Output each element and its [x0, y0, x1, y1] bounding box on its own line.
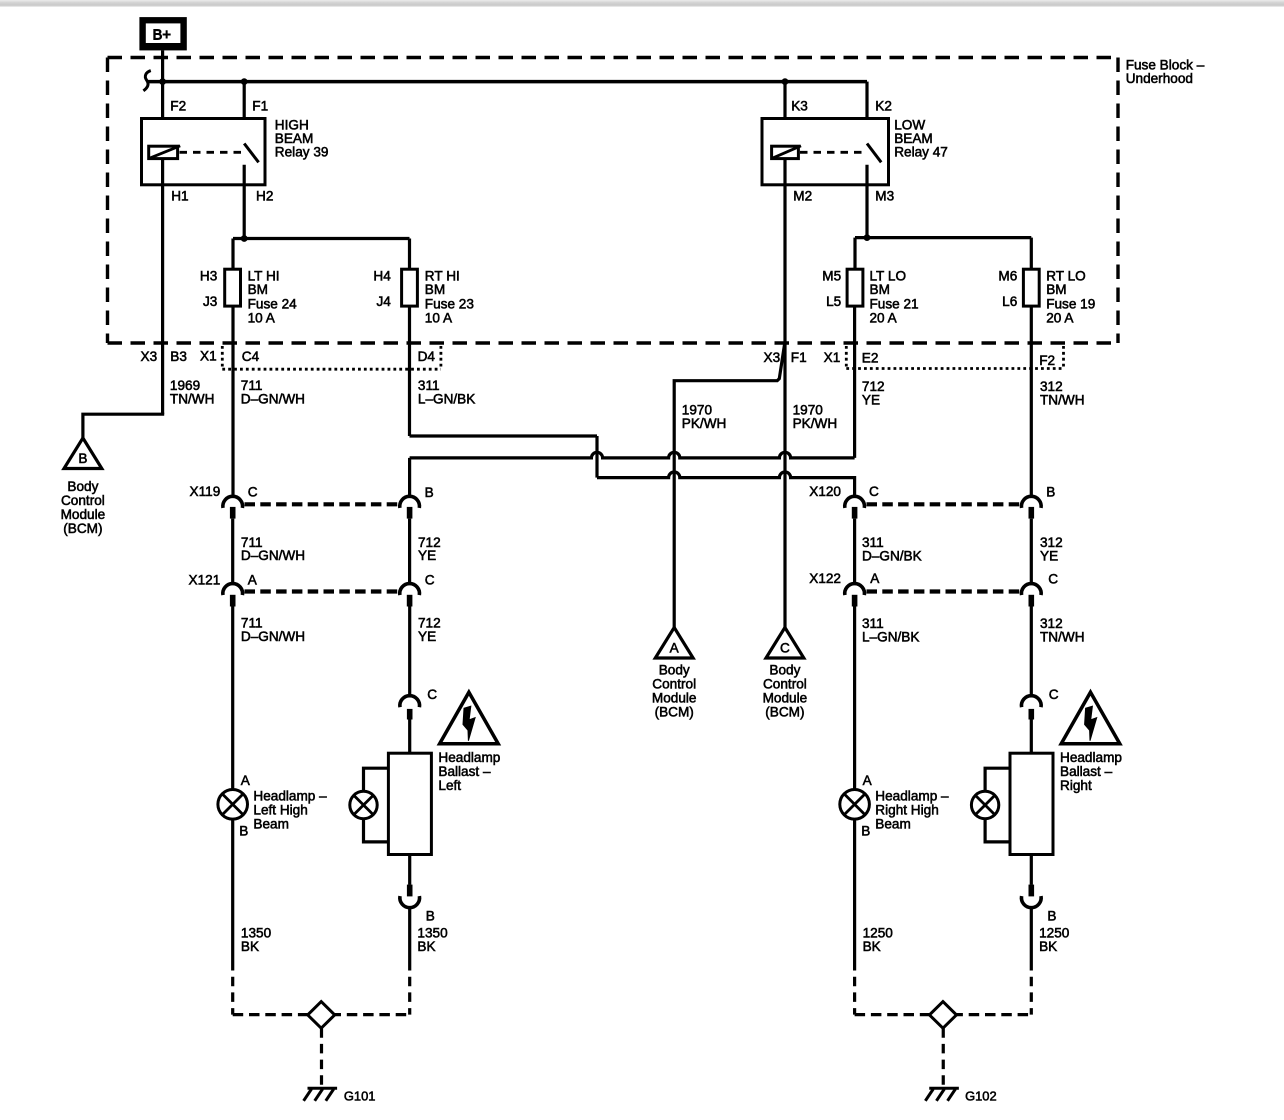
svg-text:X3: X3: [141, 349, 158, 364]
svg-text:BK: BK: [417, 939, 435, 954]
svg-text:Relay 39: Relay 39: [275, 144, 329, 159]
svg-text:A: A: [863, 773, 873, 788]
svg-text:C: C: [427, 687, 437, 702]
svg-text:C: C: [248, 484, 258, 499]
svg-text:D4: D4: [418, 349, 436, 364]
svg-text:J4: J4: [376, 294, 391, 309]
svg-text:B3: B3: [170, 349, 187, 364]
svg-text:Headlamp: Headlamp: [438, 750, 500, 765]
svg-text:B: B: [1046, 485, 1055, 500]
svg-text:K3: K3: [791, 98, 808, 113]
svg-text:L6: L6: [1002, 294, 1017, 309]
svg-text:F1: F1: [791, 350, 807, 365]
svg-text:J3: J3: [203, 294, 217, 309]
svg-text:Beam: Beam: [253, 816, 289, 831]
svg-text:Module: Module: [763, 690, 808, 705]
svg-text:(BCM): (BCM): [63, 521, 102, 536]
svg-text:A: A: [670, 641, 680, 656]
svg-text:F2: F2: [170, 98, 186, 113]
svg-text:BK: BK: [863, 939, 881, 954]
svg-text:B: B: [239, 823, 248, 838]
svg-text:X3: X3: [764, 350, 781, 365]
svg-text:X122: X122: [809, 571, 841, 586]
svg-text:C: C: [425, 572, 435, 587]
svg-text:X119: X119: [190, 484, 221, 499]
svg-text:B: B: [1047, 908, 1056, 923]
svg-text:10 A: 10 A: [248, 310, 276, 325]
svg-text:BK: BK: [241, 939, 259, 954]
svg-text:C: C: [780, 641, 790, 656]
svg-text:BM: BM: [425, 282, 445, 297]
svg-text:Right: Right: [1060, 778, 1092, 793]
svg-text:G102: G102: [965, 1089, 997, 1104]
svg-text:PK/WH: PK/WH: [682, 416, 727, 431]
svg-text:Right High: Right High: [875, 802, 938, 817]
svg-text:B: B: [78, 451, 87, 466]
svg-text:Fuse 23: Fuse 23: [425, 296, 474, 311]
svg-text:BM: BM: [1046, 282, 1066, 297]
svg-text:Fuse 21: Fuse 21: [870, 296, 919, 311]
svg-text:Underhood: Underhood: [1126, 71, 1193, 86]
svg-text:D–GN/WH: D–GN/WH: [241, 392, 305, 407]
svg-text:Headlamp: Headlamp: [1060, 750, 1122, 765]
svg-text:A: A: [241, 773, 251, 788]
svg-text:M2: M2: [793, 189, 812, 204]
svg-text:20 A: 20 A: [870, 310, 898, 325]
svg-text:M3: M3: [875, 189, 894, 204]
svg-text:Headlamp –: Headlamp –: [253, 788, 327, 803]
svg-text:C: C: [1049, 687, 1059, 702]
svg-text:H2: H2: [256, 189, 273, 204]
svg-text:Control: Control: [763, 676, 807, 691]
svg-text:Left High: Left High: [253, 802, 307, 817]
svg-text:Module: Module: [61, 507, 106, 522]
svg-text:(BCM): (BCM): [765, 704, 804, 719]
svg-text:L–GN/BK: L–GN/BK: [418, 392, 475, 407]
svg-text:Control: Control: [61, 493, 105, 508]
svg-text:E2: E2: [862, 350, 879, 365]
svg-text:BK: BK: [1039, 939, 1057, 954]
svg-text:Headlamp –: Headlamp –: [875, 788, 949, 803]
svg-text:C4: C4: [242, 349, 260, 364]
svg-text:F1: F1: [252, 98, 268, 113]
svg-text:10 A: 10 A: [425, 310, 453, 325]
svg-text:BM: BM: [248, 282, 268, 297]
svg-text:20 A: 20 A: [1046, 310, 1074, 325]
svg-text:Beam: Beam: [875, 816, 911, 831]
svg-text:(BCM): (BCM): [655, 704, 694, 719]
svg-text:H4: H4: [373, 268, 391, 283]
svg-text:Body: Body: [67, 479, 98, 494]
svg-text:X120: X120: [809, 484, 841, 499]
svg-text:B: B: [426, 908, 435, 923]
svg-text:Fuse 24: Fuse 24: [248, 296, 298, 311]
svg-text:K2: K2: [875, 98, 892, 113]
svg-text:Body: Body: [659, 662, 690, 677]
svg-text:Left: Left: [438, 778, 461, 793]
svg-text:X121: X121: [189, 572, 221, 587]
svg-text:D–GN/WH: D–GN/WH: [241, 629, 305, 644]
svg-text:X1: X1: [200, 349, 217, 364]
svg-text:BM: BM: [870, 282, 890, 297]
svg-text:YE: YE: [1040, 549, 1058, 564]
svg-text:Module: Module: [652, 690, 697, 705]
svg-text:L–GN/BK: L–GN/BK: [862, 630, 919, 645]
svg-text:C: C: [869, 484, 879, 499]
svg-text:TN/WH: TN/WH: [1040, 630, 1085, 645]
svg-text:G101: G101: [344, 1089, 376, 1104]
svg-text:D–GN/WH: D–GN/WH: [241, 548, 305, 563]
svg-text:A: A: [248, 572, 258, 587]
svg-text:Ballast –: Ballast –: [438, 764, 491, 779]
svg-text:Relay 47: Relay 47: [894, 144, 948, 159]
svg-text:Ballast –: Ballast –: [1060, 764, 1113, 779]
svg-text:Fuse 19: Fuse 19: [1046, 296, 1095, 311]
svg-text:X1: X1: [824, 350, 841, 365]
svg-text:M5: M5: [822, 268, 841, 283]
svg-text:M6: M6: [998, 268, 1017, 283]
svg-text:TN/WH: TN/WH: [1040, 393, 1085, 408]
svg-text:PK/WH: PK/WH: [793, 416, 838, 431]
svg-text:H3: H3: [200, 268, 217, 283]
svg-text:L5: L5: [826, 294, 841, 309]
svg-text:B+: B+: [153, 28, 171, 44]
svg-text:C: C: [1048, 572, 1058, 587]
svg-text:H1: H1: [171, 189, 188, 204]
svg-text:D–GN/BK: D–GN/BK: [862, 549, 922, 564]
svg-text:TN/WH: TN/WH: [170, 392, 215, 407]
svg-text:F2: F2: [1039, 353, 1055, 368]
svg-text:A: A: [870, 571, 880, 586]
svg-text:Body: Body: [769, 662, 800, 677]
svg-text:B: B: [425, 485, 434, 500]
svg-text:B: B: [861, 823, 870, 838]
svg-text:YE: YE: [862, 393, 880, 408]
svg-text:YE: YE: [418, 629, 436, 644]
svg-text:Control: Control: [652, 676, 696, 691]
svg-text:YE: YE: [418, 548, 436, 563]
